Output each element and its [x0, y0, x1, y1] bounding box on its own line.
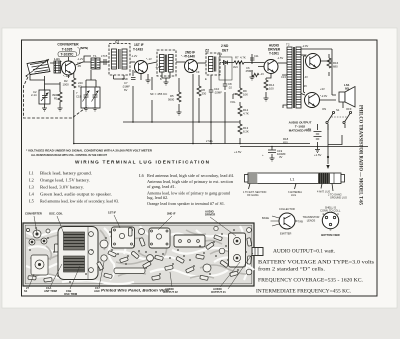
label: C8 — [228, 82, 232, 90]
resistor R12 vertical — [238, 106, 242, 116]
svg-text:C1B: C1B — [76, 95, 82, 99]
svg-text:BASE: BASE — [262, 216, 269, 220]
wire: TR2 to Z2 — [148, 62, 158, 64]
ground: below C19 — [270, 156, 275, 161]
switch S1 on-off — [326, 111, 352, 123]
wire: T2 secondary to output transistors — [301, 55, 307, 95]
wire: volume control line x=240 — [239, 63, 241, 144]
driver transformer on panel — [229, 233, 246, 267]
svg-text:OUTPUT #1: OUTPUT #1 — [211, 290, 226, 294]
left lug list L1-L5 — [29, 171, 119, 205]
svg-text:650: 650 — [283, 141, 288, 145]
wire: loopstick lead 3 — [295, 184, 297, 190]
capacitor C5 on bus — [100, 59, 109, 65]
svg-text:C11: C11 — [254, 54, 259, 58]
ground: below R14 — [264, 96, 269, 101]
svg-text:INTERMEDIATE FREQUENCY=455 KC.: INTERMEDIATE FREQUENCY=455 KC. — [256, 290, 351, 295]
label: 2nd IF type — [185, 51, 195, 59]
wire: detector drop x=225 — [224, 65, 226, 144]
solder pads on panel — [29, 227, 247, 283]
diode CR1 detector — [222, 61, 230, 65]
coil: converter input winding — [54, 61, 61, 73]
schematic outer border — [22, 40, 378, 296]
wiring panel outer border — [23, 223, 254, 286]
svg-text:+3V: +3V — [320, 87, 325, 91]
label: R6 — [202, 88, 207, 96]
wire: vertical x=152 — [151, 77, 153, 122]
wire: TR1 emitter down — [69, 70, 74, 78]
svg-text:4.7K: 4.7K — [240, 56, 246, 60]
transformer Z1 dashed box — [109, 44, 130, 76]
antenna coil LA1 — [26, 59, 50, 76]
wire: C2 R1 tops joined — [30, 74, 60, 92]
capacitor C8 on detector line — [223, 80, 228, 90]
second IF transformer on panel — [149, 228, 170, 248]
coil: Z1 primary and secondary — [112, 49, 128, 69]
wire: TR2 emitter down — [140, 74, 142, 79]
svg-text:4.7K: 4.7K — [243, 112, 249, 116]
svg-text:FREQUENCY COVERAGE=535 - 1620: FREQUENCY COVERAGE=535 - 1620 KC. — [258, 279, 363, 284]
detector driver bar on panel — [174, 235, 205, 247]
capacitor C10 — [209, 86, 214, 96]
node: junction dots on rails — [73, 62, 318, 148]
svg-text:Printed Wire Panel, Bottom Vie: Printed Wire Panel, Bottom View — [101, 289, 169, 293]
svg-text:B: B — [330, 228, 332, 232]
shield box around detector diode — [219, 57, 232, 80]
svg-text:-1V: -1V — [260, 72, 264, 76]
svg-text:10K: 10K — [243, 93, 248, 97]
svg-text:T-1433: T-1433 — [133, 48, 143, 52]
wire: Z1 to TR2 — [130, 61, 135, 63]
label: R9 volume — [230, 89, 248, 104]
capacitor C7 below Z1 — [131, 78, 136, 80]
svg-text:ANT TRIM: ANT TRIM — [44, 289, 58, 293]
label: R16 680 — [333, 61, 339, 69]
svg-text:T1: T1 — [93, 54, 97, 58]
svg-text:AUDIO OUTPUT=0.1 watt.: AUDIO OUTPUT=0.1 watt. — [273, 250, 335, 255]
svg-text:C13: C13 — [281, 75, 286, 79]
wire: loopstick lead 2 — [332, 184, 333, 192]
ground: below gang right — [93, 104, 98, 111]
label: R7 value — [235, 56, 246, 60]
label: panel top callouts — [25, 210, 215, 217]
coil: loopstick right winding — [318, 173, 334, 184]
svg-text:6V: 6V — [124, 88, 128, 92]
resistor R7 horizontal — [234, 61, 244, 64]
svg-text:1ST IF: 1ST IF — [108, 211, 116, 215]
wire: T2 primary bottom to rail — [282, 75, 287, 108]
svg-text:LA1: LA1 — [54, 57, 60, 61]
wire: gang box feeds — [86, 70, 96, 87]
capacitor C6 — [250, 54, 255, 64]
svg-text:OSC TRIM: OSC TRIM — [64, 292, 78, 296]
label: 1st IF type — [133, 43, 144, 52]
transformer Z2 dashed box — [157, 50, 176, 76]
resistors and capacitors on panel — [28, 228, 252, 282]
resistor R16 vertical — [327, 54, 331, 76]
label: C10 — [214, 87, 222, 95]
label: audio output matched pair — [289, 121, 313, 133]
wire: switch to battery vertical — [318, 124, 346, 147]
wire: output collectors loop — [301, 49, 336, 100]
ground: Z2 secondary — [164, 78, 169, 85]
speaker LS1 — [339, 87, 355, 108]
transistor TR4 audio driver — [264, 60, 278, 74]
label: C7 values — [122, 81, 130, 92]
label: R12 — [243, 108, 249, 116]
ground: below C6 — [250, 75, 255, 80]
svg-text:*-2.9V: *-2.9V — [320, 94, 327, 98]
svg-text:S1: S1 — [24, 289, 28, 293]
svg-text:.02MF: .02MF — [214, 91, 222, 95]
svg-text:3V: 3V — [279, 155, 283, 159]
battery B1 3V — [314, 132, 322, 140]
svg-text:+1.5V: +1.5V — [314, 153, 322, 157]
label: R13 — [243, 126, 249, 134]
label: loopstick lead callouts — [243, 191, 347, 200]
svg-text:B: B — [160, 77, 162, 81]
svg-text:(NPN): (NPN) — [80, 46, 88, 50]
wire: x=73.8 vertical long drop to bottom dashed area — [73, 90, 75, 144]
ground: below battery — [315, 147, 320, 153]
svg-text:CONVERTER: CONVERTER — [57, 43, 79, 47]
svg-text:1ST IF: 1ST IF — [134, 43, 144, 47]
svg-text:-1.2V: -1.2V — [155, 65, 161, 69]
svg-text:*-.1V: *-.1V — [146, 57, 152, 61]
coil: loopstick left winding — [249, 173, 258, 184]
resistor R14 emitter vertical — [264, 80, 268, 90]
svg-text:LEADS: LEADS — [307, 219, 316, 223]
svg-text:5600: 5600 — [168, 98, 175, 102]
wire: C6 drop x=252 — [251, 58, 253, 75]
svg-text:R7: R7 — [235, 56, 239, 60]
svg-text:EMITTER: EMITTER — [280, 232, 292, 236]
wire: battery top feed — [317, 124, 319, 130]
transistor pinout bottom view — [322, 212, 338, 228]
wire: lower rail right section — [240, 146, 368, 148]
capacitor gang C1A C1B box — [81, 87, 100, 108]
label: gang sections — [76, 91, 82, 99]
jumper bar on panel — [114, 268, 145, 274]
svg-text:680: 680 — [333, 65, 338, 69]
svg-text:E: E — [205, 77, 207, 81]
resistor R15 bias — [252, 73, 259, 76]
svg-text:E: E — [323, 212, 325, 216]
wire: vertical x=179 with resistor to ground — [178, 78, 180, 110]
svg-text:SF = 455 KC: SF = 455 KC — [150, 92, 168, 96]
wire: vertical feed left of T1 — [84, 56, 91, 62]
svg-text:L3: L3 — [29, 185, 34, 190]
svg-text:COLLECTOR: COLLECTOR — [279, 207, 295, 211]
label: panel bottom callouts — [24, 286, 226, 296]
svg-text:L6: L6 — [139, 173, 145, 178]
svg-text:AVC: AVC — [233, 65, 238, 69]
wire: callout leaders top — [34, 215, 236, 236]
svg-text:2 ND: 2 ND — [221, 44, 229, 48]
tuning gang C1 on panel — [58, 227, 98, 280]
wire: TR4 base feed and emitter resistor — [258, 67, 271, 97]
svg-text:T-1001: T-1001 — [269, 52, 279, 56]
capacitor C2 trimmer with box — [39, 90, 50, 104]
svg-text:-1.2V: -1.2V — [77, 57, 83, 61]
wire: TR4 collector to T2 — [278, 62, 287, 64]
wire: vertical x=211 C10 — [210, 75, 212, 144]
svg-text:from 2 standard “D” cells.: from 2 standard “D” cells. — [258, 267, 325, 273]
svg-text:S1: S1 — [336, 108, 340, 112]
svg-text:L4: L4 — [29, 192, 35, 197]
svg-text:T-1035C: T-1035C — [60, 53, 74, 57]
svg-text:*-.1V: *-.1V — [181, 54, 187, 58]
wire: converter top to label — [68, 57, 70, 61]
label: R2 1000 — [63, 79, 84, 89]
electrolytic cans on panel — [100, 226, 252, 275]
ground: below C2 — [42, 104, 47, 111]
wire: Z1 bottom drops — [114, 70, 134, 79]
svg-text:OF GANG: OF GANG — [247, 194, 259, 197]
label: R18 — [283, 137, 289, 145]
svg-text:2 SEL: 2 SEL — [206, 139, 214, 143]
wire: vertical x=199 R6 — [198, 75, 200, 122]
wire: TR3 to Z3 — [198, 62, 207, 64]
ground: below R5 — [177, 110, 182, 115]
first IF transformer on panel — [112, 227, 135, 248]
svg-text:VOL: VOL — [230, 100, 236, 104]
ground: TR2 emitter — [146, 74, 151, 83]
svg-text:CONVERTER: CONVERTER — [25, 212, 42, 216]
svg-text:LUG: LUG — [291, 194, 296, 197]
resistor R6 vertical — [197, 86, 201, 96]
capacitor C19 electrolytic — [268, 150, 276, 153]
svg-text:TAB: TAB — [298, 220, 303, 224]
ground: below gang left — [84, 104, 89, 111]
svg-text:Orange lead from speaker to te: Orange lead from speaker to terminal #7 … — [147, 201, 225, 206]
svg-text:AGC: AGC — [94, 289, 100, 293]
wire: callout leaders bottom — [29, 253, 253, 289]
svg-text:-1.2V: -1.2V — [131, 54, 137, 58]
svg-text:GND: GND — [122, 77, 128, 81]
converter transistor cluster on panel — [26, 228, 50, 245]
transformer T1 oscillator — [91, 58, 100, 69]
wire: dashed tuning gang linkage — [24, 77, 89, 118]
transistor TR6 output lower — [305, 93, 320, 108]
svg-text:* VOLTAGES READ UNDER NO SIGNA: * VOLTAGES READ UNDER NO SIGNAL CONDITIO… — [26, 149, 153, 153]
svg-text:ON: ON — [322, 107, 326, 111]
wire: output bases tie — [304, 56, 307, 93]
wire: detector through R7 C6 to audio driver — [229, 62, 265, 64]
svg-text:.02: .02 — [228, 86, 232, 90]
svg-text:PHILCO TRANSISTOR RADIO — MODE: PHILCO TRANSISTOR RADIO — MODEL T-65 — [358, 105, 363, 206]
svg-text:8Ω: 8Ω — [345, 87, 350, 91]
wire: Z2 to TR3 — [176, 61, 185, 63]
wire: C19 branch — [271, 147, 273, 157]
svg-text:ALL RESISTANCES READ WITH VOL.: ALL RESISTANCES READ WITH VOL. CONTROL I… — [31, 153, 107, 157]
label: bracket around converter types — [78, 48, 80, 56]
svg-text:*-.12V: *-.12V — [63, 74, 70, 78]
svg-text:DRIVER: DRIVER — [205, 213, 215, 217]
label: R14 — [269, 83, 275, 91]
wire: Z3 to detector — [220, 62, 221, 64]
wire: top signal bus converter to Z1 — [50, 62, 109, 66]
label: converter type callout — [54, 43, 88, 62]
wire: vertical x=133 to rail — [132, 86, 134, 122]
label: transistor center note — [303, 215, 320, 223]
svg-text:L2: L2 — [29, 178, 34, 183]
svg-text:BATTERY VOLTAGE AND TYPE=3.0 v: BATTERY VOLTAGE AND TYPE=3.0 volts — [258, 261, 374, 266]
svg-text:.05: .05 — [77, 64, 81, 68]
transformer Z3 dashed box — [206, 53, 220, 75]
wire: Z2 bottom and TR3 emitter drops — [162, 72, 193, 144]
svg-text:.4V: .4V — [304, 75, 308, 79]
label: C19 — [262, 149, 286, 159]
potentiometer R9 volume — [233, 88, 242, 99]
svg-text:2-14: 2-14 — [31, 93, 37, 97]
svg-text:OSC. COIL: OSC. COIL — [49, 212, 63, 216]
wire: dropper to loopstick ground lug — [327, 124, 329, 164]
svg-text:-1.5V: -1.5V — [277, 56, 283, 60]
svg-text:1000: 1000 — [63, 83, 70, 87]
label: C2 value — [31, 90, 37, 97]
svg-text:-2.9V: -2.9V — [302, 44, 308, 48]
antenna loopstick L1 body — [245, 173, 345, 184]
label: pinout side view names — [262, 207, 303, 236]
label: +3V — [306, 127, 322, 157]
svg-text:L5: L5 — [29, 199, 34, 204]
svg-text:GROUND LUG: GROUND LUG — [330, 197, 347, 200]
audio output tab on panel — [252, 248, 263, 256]
resistor R1 3900 vertical — [58, 92, 62, 104]
resistor R5 vertical below Z2 — [177, 92, 181, 102]
transistor TR5 output upper — [306, 54, 321, 69]
wire: IF stage bottom tie — [114, 78, 171, 80]
wire: loopstick lead 4 — [321, 184, 322, 189]
transistor TR2 first IF — [135, 61, 148, 74]
svg-text:R4: R4 — [134, 70, 138, 74]
label: C6 value — [245, 66, 253, 73]
right specs text block — [256, 250, 374, 295]
svg-text:+1.5V: +1.5V — [234, 150, 242, 154]
svg-text:L1: L1 — [29, 171, 34, 176]
svg-text:-3V: -3V — [303, 84, 307, 88]
svg-text:T2: T2 — [286, 43, 290, 47]
transistor TR1 converter — [62, 61, 76, 75]
resistor R2 1000 vertical — [72, 78, 76, 88]
svg-text:L1: L1 — [290, 177, 295, 182]
svg-text:100: 100 — [269, 87, 274, 91]
svg-text:C: C — [337, 212, 339, 216]
label: 2nd det — [221, 44, 229, 53]
svg-text:CR1: CR1 — [217, 52, 223, 56]
right lug list L6 — [139, 173, 234, 206]
wire: mid rail y=122 — [123, 121, 240, 123]
coil: Z3 winding — [209, 57, 216, 72]
label: osc junction values — [77, 54, 104, 68]
wire: bottom rail B minus — [74, 143, 310, 145]
small can between IFs — [139, 229, 145, 235]
svg-text:DET: DET — [222, 49, 228, 53]
svg-text:CONN. TO COLL.: CONN. TO COLL. — [320, 209, 341, 213]
node: antenna lead dot — [26, 75, 28, 77]
svg-text:2ND IF: 2ND IF — [167, 212, 176, 216]
label: voltages near outputs — [303, 84, 327, 98]
svg-text:T-1035: T-1035 — [62, 48, 73, 52]
transistor pinout side view — [271, 213, 298, 229]
label: R5 5600 — [168, 94, 175, 102]
svg-text:330: 330 — [202, 92, 207, 96]
svg-text:R1: R1 — [54, 97, 58, 101]
svg-text:MATCHED PAIR: MATCHED PAIR — [289, 129, 312, 133]
volume control on panel — [31, 255, 48, 275]
wiring panel copper trace maze — [26, 226, 254, 284]
svg-text:.05MF: .05MF — [245, 69, 253, 73]
svg-text:Z1: Z1 — [115, 40, 119, 44]
transformer T2 interstage — [287, 47, 301, 108]
svg-text:8.2K: 8.2K — [243, 130, 249, 134]
coil: Z2 windings — [160, 55, 174, 73]
ground: below R1 — [58, 104, 63, 111]
svg-text:C5: C5 — [104, 54, 108, 58]
svg-text:BOTTOM VIEW: BOTTOM VIEW — [321, 233, 340, 237]
resistor R13 vertical — [238, 124, 242, 134]
label: R1 3900 — [52, 93, 59, 101]
label: audio driver type — [268, 44, 281, 56]
transistor TR3 second IF — [185, 60, 198, 73]
wire: loopstick lead 1 — [249, 184, 251, 190]
svg-text:OFF: OFF — [346, 107, 352, 111]
label: S1 — [322, 107, 352, 112]
svg-text:C9: C9 — [196, 70, 200, 74]
label: LS1 — [344, 83, 350, 91]
svg-text:Z2: Z2 — [205, 49, 209, 53]
svg-text:TRANSISTOR: TRANSISTOR — [303, 215, 320, 219]
wire: battery rail link — [328, 135, 342, 145]
label: bottom view pins — [320, 206, 341, 238]
wire: speaker to switch drop — [342, 102, 344, 108]
label: scattered value callouts — [63, 44, 308, 81]
